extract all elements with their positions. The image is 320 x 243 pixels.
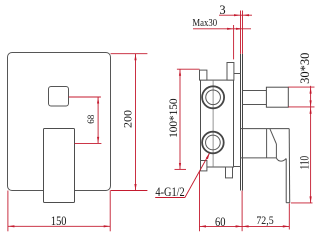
svg-text:60: 60 <box>215 214 226 229</box>
svg-text:68: 68 <box>86 114 96 123</box>
svg-text:110: 110 <box>298 156 312 170</box>
svg-text:3: 3 <box>219 3 225 17</box>
svg-text:Max30: Max30 <box>192 17 217 29</box>
svg-text:30*30: 30*30 <box>298 53 312 84</box>
svg-text:200: 200 <box>121 110 135 128</box>
svg-text:100*150: 100*150 <box>167 98 180 138</box>
svg-text:4-G1/2: 4-G1/2 <box>155 186 185 199</box>
svg-text:72,5: 72,5 <box>256 214 274 227</box>
svg-text:150: 150 <box>51 214 67 228</box>
